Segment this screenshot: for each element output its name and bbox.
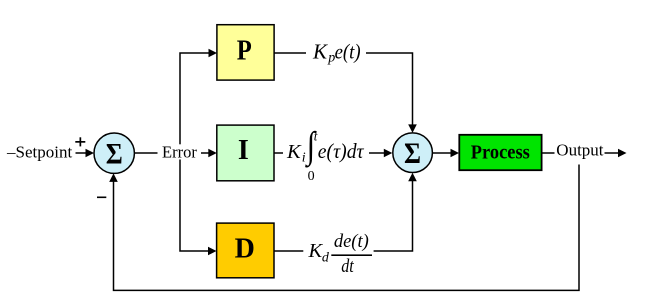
- svg-text:P: P: [237, 35, 252, 66]
- svg-text:K: K: [286, 141, 302, 163]
- svg-text:Error: Error: [162, 143, 197, 162]
- svg-text:–Setpoint: –Setpoint: [6, 142, 72, 161]
- svg-text:Process: Process: [471, 143, 530, 164]
- svg-text:0: 0: [308, 169, 315, 184]
- svg-text:I: I: [238, 135, 249, 166]
- svg-text:dt: dt: [341, 257, 354, 277]
- svg-text:de(t): de(t): [334, 232, 369, 252]
- svg-text:Σ: Σ: [404, 137, 421, 170]
- svg-text:Σ: Σ: [106, 137, 123, 170]
- svg-text:d: d: [322, 251, 330, 266]
- svg-text:K: K: [312, 39, 328, 63]
- svg-text:e(τ)dτ: e(τ)dτ: [318, 139, 365, 163]
- svg-text:e(t): e(t): [335, 39, 361, 63]
- svg-text:D: D: [235, 233, 255, 264]
- svg-text:i: i: [302, 151, 306, 166]
- svg-text:Output: Output: [556, 141, 604, 160]
